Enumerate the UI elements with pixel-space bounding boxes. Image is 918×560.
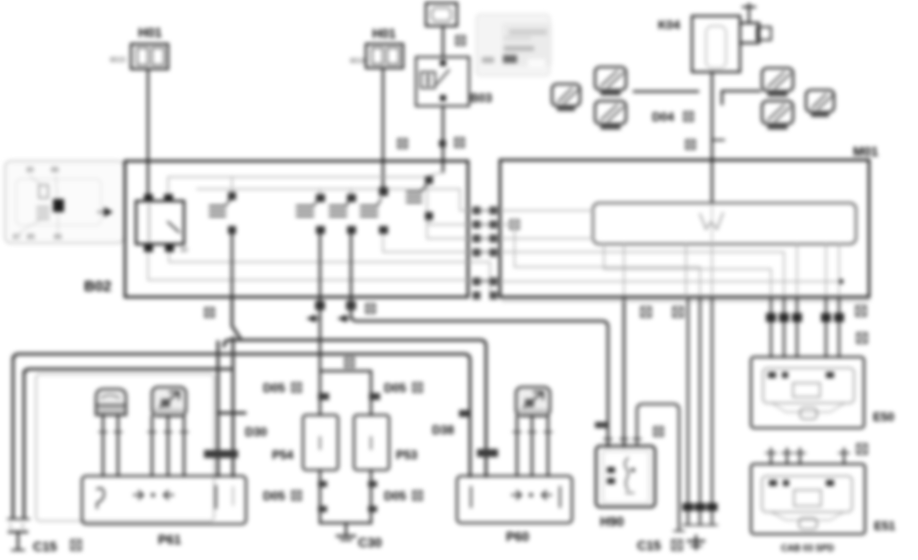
wire relay to s1 top: [168, 177, 232, 194]
connector strip P61: [82, 476, 246, 524]
wire join to ground C30: [320, 522, 371, 524]
switch S5 in B02: [407, 172, 443, 220]
triple wire stubs below connectors: [688, 511, 712, 524]
ticks on E51 stubs: [766, 452, 849, 454]
lamp cluster E51: [751, 464, 896, 534]
fusebox B02: [84, 161, 468, 297]
wire fuse row left to K04: [634, 90, 698, 92]
connector D38 lower bar: [477, 449, 498, 457]
wire s1 down out of B02: [231, 234, 233, 299]
wire row4 to E50 pin: [500, 252, 784, 297]
twisted pair arrow right: [337, 315, 351, 323]
connector H01 (left): [110, 25, 168, 69]
connector D05 stub on P54 wire: [318, 393, 329, 400]
cable run B horizontal: [13, 354, 470, 476]
label C15 center: [637, 538, 682, 553]
switch S2 in B02: [297, 189, 325, 234]
label D30: [245, 425, 267, 439]
svg-text:E50: E50: [873, 410, 895, 424]
svg-text:86: 86: [54, 234, 62, 241]
wire B02 s3 to H90: [351, 299, 608, 446]
svg-text:2: 2: [21, 524, 25, 530]
wire M01 pin 624 down: [623, 244, 625, 297]
ground C15 center: [688, 536, 704, 549]
wire relay pin2 bottom row: [169, 252, 500, 294]
svg-text:D05: D05: [263, 381, 285, 395]
caption under E51: [781, 543, 835, 553]
svg-text:P54: P54: [272, 448, 294, 462]
cable B02 232 down to P61 strip: [232, 338, 235, 476]
fuse F4: [762, 68, 793, 97]
svg-text:P60: P60: [506, 529, 529, 544]
connector mark x on K04 wire: [686, 140, 695, 149]
ticks C15 left wire ends: [8, 519, 29, 530]
svg-text:H90: H90: [600, 514, 624, 529]
connector D30 lower bar: [204, 450, 238, 458]
svg-text:CAB 03 SPD: CAB 03 SPD: [781, 543, 835, 553]
wire M01 pin 797 down: [796, 244, 798, 297]
stub wires above E51: [771, 449, 844, 464]
motor symbol in P61: [152, 387, 186, 416]
label P61: [158, 532, 181, 547]
pin mark below B02 s2: [315, 301, 325, 310]
svg-text:D05: D05: [263, 489, 285, 503]
fuse F6: [806, 90, 834, 117]
pump P54: [272, 415, 338, 470]
fuse F2: [595, 101, 626, 130]
switch S1 in B02: [210, 177, 236, 234]
motor symbol P60: [516, 387, 550, 416]
wire K04 down to M01: [712, 72, 724, 203]
ground C15 left: [9, 532, 27, 550]
svg-text:H01: H01: [138, 25, 162, 40]
svg-text:30: 30: [180, 247, 188, 254]
wire from H01 left to relay in B02: [147, 69, 149, 194]
svg-text:C15: C15: [637, 538, 661, 553]
switch S3 in B02: [330, 189, 356, 234]
label D05 top left: [263, 381, 301, 395]
connector mark x right of T1 wire: [456, 36, 465, 45]
svg-text:B03: B03: [470, 91, 492, 105]
tick end of loop wire: [674, 530, 684, 532]
pump P53: [354, 415, 418, 470]
connector T1 above B03: [426, 3, 457, 26]
wire s2 s3 top bus: [197, 188, 352, 190]
connector mark x below M01 left: [641, 307, 651, 317]
svg-text:8016: 8016: [350, 58, 366, 65]
lamp cluster E50: [751, 357, 895, 428]
connector H01 (right): [350, 26, 403, 68]
ticks on triple wires: [683, 524, 717, 526]
svg-text:C15: C15: [33, 539, 57, 554]
wire K04 to right fuses: [722, 91, 760, 104]
connector column row3: [473, 235, 498, 243]
fuse F5: [762, 101, 793, 130]
wire M01 pin 828 down: [825, 244, 827, 297]
twisted pair arrow left: [306, 315, 320, 323]
fuse F3: [552, 84, 580, 111]
lamp symbol in P61: [96, 389, 126, 415]
ECU M01: [500, 144, 878, 297]
svg-text:85: 85: [27, 234, 35, 241]
label D04: [652, 110, 693, 124]
wire from H01 right into B02: [382, 68, 384, 192]
connector mark x on H01 right wire: [398, 139, 407, 148]
connector D05 stub on P53 wire: [369, 393, 380, 400]
svg-text:H01: H01: [372, 26, 396, 41]
wire row5 to E51 pin: [500, 244, 844, 297]
svg-text:P53: P53: [396, 448, 418, 462]
relay legend box left: [5, 161, 124, 243]
label D05 bottom left: [263, 489, 301, 503]
svg-text:D05: D05: [384, 489, 406, 503]
connector mark x below M01 right: [673, 307, 683, 317]
ground C30: [337, 523, 355, 540]
connector D30 stubs on cables: [218, 412, 245, 415]
connector strip P60: [457, 476, 572, 523]
lamp pins: [99, 415, 122, 476]
connector mark x near branch: [345, 358, 354, 367]
cable P61 branch down: [217, 342, 220, 476]
wire P54 down: [319, 470, 321, 523]
connector D05 stub lower P53: [368, 481, 377, 512]
svg-text:87: 87: [13, 234, 21, 241]
connector mark x right of E50 wires mid: [857, 333, 867, 343]
wire bus to row1: [352, 189, 500, 211]
svg-text:1: 1: [9, 524, 13, 530]
legend info box: [476, 14, 552, 76]
switch S4 in B02: [361, 187, 388, 234]
cable ground C15 left inner: [23, 372, 26, 518]
svg-text:D04: D04: [652, 110, 674, 124]
pin mark below B02 s3: [346, 301, 356, 310]
wire B03 to B02: [442, 106, 444, 172]
connector D38 stub upper: [459, 410, 470, 417]
wire s5 to row2: [429, 220, 500, 225]
connector column row6: [473, 292, 498, 300]
connector stub on H90 wire: [595, 422, 608, 428]
wire row1 into M01: [500, 210, 593, 212]
connector mark x above E51: [857, 444, 867, 454]
wire branch to P53: [320, 371, 371, 415]
svg-text:C30: C30: [358, 535, 382, 550]
connector column row2: [473, 221, 498, 229]
cable run A horizontal: [224, 340, 486, 476]
wire M01 624 to H90: [623, 297, 626, 446]
horn H90: [596, 446, 655, 529]
label C30: [358, 535, 382, 550]
svg-text:D38: D38: [432, 423, 454, 437]
label C15 left: [33, 539, 81, 554]
connector mark x near H90: [654, 427, 663, 436]
wire T1 to B03: [442, 26, 444, 57]
connector block inside M01: [593, 203, 856, 244]
cable B02 pin to horizontal run A: [232, 299, 240, 338]
connector D05 stub lower P54: [318, 481, 327, 512]
ticks above H90: [604, 438, 641, 440]
wire M01 pin 712 down: [711, 244, 713, 297]
wire s4 to row4: [383, 234, 500, 252]
wire across top of B02: [232, 177, 500, 239]
cable ground C15 left outer: [12, 358, 15, 518]
connector column row1: [473, 207, 498, 215]
connector mark x below B02 left: [205, 308, 214, 317]
svg-text:86: 86: [51, 167, 59, 174]
wire to P54: [319, 299, 321, 415]
relay inside B02: [136, 194, 188, 254]
connector column row4: [473, 249, 498, 257]
wire relay bottom row: [148, 252, 500, 280]
wire H90 loop to C15: [637, 404, 679, 530]
wire row2 into M01: [500, 220, 700, 297]
motor P60 pins: [513, 416, 552, 476]
relay K04: [658, 4, 771, 72]
component box P61: [36, 374, 214, 521]
wire faint rail below M01: [502, 300, 869, 302]
svg-text:30: 30: [26, 167, 34, 174]
junction dot near B03 wire: [439, 140, 446, 147]
wire M01 pin 604 to E50: [604, 244, 771, 297]
wires M01 to E50: [771, 297, 839, 357]
fuse F1: [595, 67, 626, 96]
svg-text:M01: M01: [853, 144, 878, 159]
label D05 bottom right: [384, 489, 422, 503]
svg-text:B02: B02: [84, 278, 112, 295]
svg-text:D30: D30: [245, 425, 267, 439]
wire s3 down out of B02: [350, 234, 352, 299]
triple wires M01 to C15: [688, 297, 712, 503]
connector mark x near B03 wire: [455, 138, 464, 147]
svg-text:E51: E51: [874, 519, 896, 533]
arrow from legend to B02: [98, 207, 113, 217]
motor pins: [148, 416, 188, 476]
switch B03: [416, 57, 492, 106]
svg-text:P61: P61: [158, 532, 181, 547]
svg-text:D05: D05: [384, 381, 406, 395]
wire M01 pin 686 down: [685, 244, 687, 297]
wire P53 down: [370, 470, 372, 523]
svg-text:K04: K04: [658, 18, 680, 32]
wire s2 down out of B02: [319, 234, 321, 299]
triple wire connectors: [683, 503, 718, 511]
svg-text:8015: 8015: [110, 57, 126, 64]
connector mark x below B02 s4: [366, 304, 375, 313]
label P60: [506, 529, 529, 544]
connector bars on E50 wires: [766, 313, 844, 322]
label D38: [432, 423, 454, 437]
connector mark x right of E50 wires top: [856, 306, 866, 316]
label D05 top right: [384, 381, 422, 395]
wire row3 into M01: [500, 238, 593, 240]
cable run Q horizontal: [24, 369, 233, 374]
connector column row5: [473, 278, 498, 286]
